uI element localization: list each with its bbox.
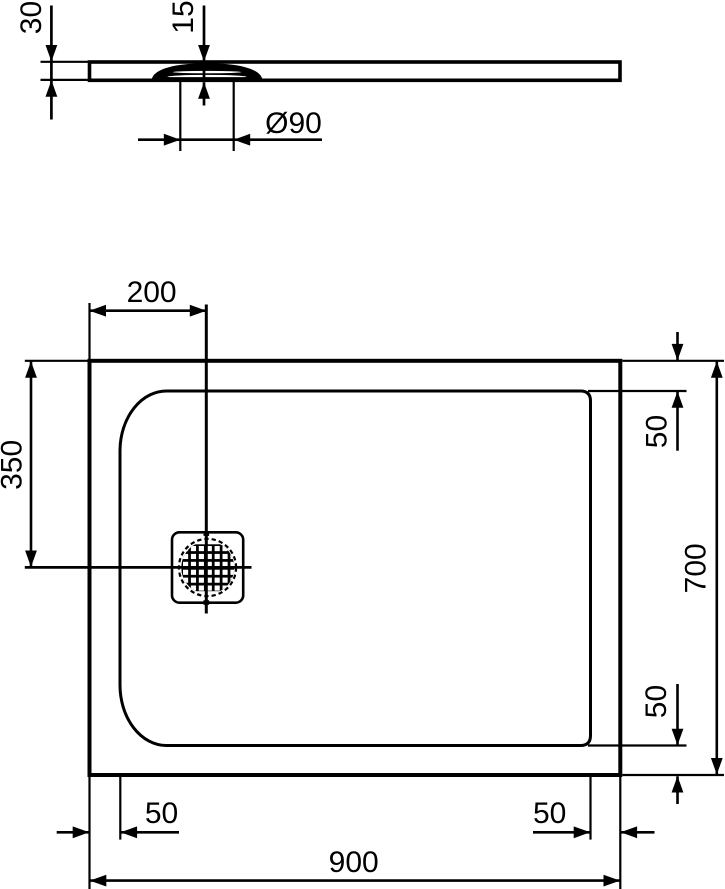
dimension 50 bottom right corner: value label	[533, 797, 566, 830]
drain: horizontal centerline	[25, 566, 252, 569]
dimension D90: extension lines	[180, 82, 233, 151]
section view: drain cap underline	[167, 77, 247, 79]
svg-text:30: 30	[15, 1, 48, 34]
section view: drain cap under-gap	[168, 75, 247, 79]
svg-text:50: 50	[640, 685, 673, 718]
dimension 30: value label	[15, 1, 48, 34]
dimension 30: extension lines	[41, 62, 90, 80]
dimension 50 top right: arrows	[672, 332, 684, 451]
dimension 30: dimension line with arrows	[46, 6, 58, 120]
svg-text:350: 350	[0, 440, 29, 490]
drain: dashed waste circle	[179, 539, 236, 596]
dimension 50 top right: extension lines	[588, 361, 724, 391]
dimension 700: dimension line with arrows	[711, 361, 723, 774]
dimension 900: value label	[329, 846, 379, 879]
dimension 50 bottom right: extension line	[588, 744, 687, 746]
dimension D90: dimension line with arrows	[138, 134, 322, 146]
svg-text:15: 15	[167, 0, 200, 33]
dimension 900: extension line right	[619, 777, 621, 889]
dimension 50 bottom right corner: extension line	[589, 777, 591, 840]
dimension D90: value label	[265, 107, 322, 140]
dimension 50 bottom left: dimension line with arrows	[57, 826, 179, 838]
dimension 50 top right: value label	[641, 415, 674, 448]
section view: drain cap lens sliver	[173, 71, 241, 73]
dimension 350: dimension line with arrows	[25, 361, 37, 567]
dimension 50 bottom right: arrows	[672, 684, 684, 804]
plan view: tray outer rectangle	[90, 361, 621, 775]
dimension 50 bottom left: extension lines	[90, 777, 121, 889]
drain: vertical centerline	[204, 305, 210, 614]
svg-text:700: 700	[680, 543, 713, 593]
plan view: tray inner rounded floor outline	[120, 391, 591, 746]
svg-text:50: 50	[145, 797, 178, 830]
dimension 50 bottom right: value label	[640, 685, 673, 718]
dimension 200: value label	[127, 276, 177, 309]
svg-text:900: 900	[329, 846, 379, 879]
drain: rounded square waste cover	[172, 532, 243, 602]
svg-text:Ø90: Ø90	[265, 107, 322, 140]
dimension 200: extension line	[88, 303, 90, 359]
dimension 50 bottom right corner: dimension line with arrows	[533, 826, 655, 838]
dimension 200: dimension line with arrows	[90, 305, 207, 317]
dimension 350: value label	[0, 440, 29, 490]
section view: tray profile bar	[90, 62, 621, 80]
svg-text:50: 50	[533, 797, 566, 830]
dimension 350: top extension line	[25, 360, 89, 362]
svg-text:200: 200	[127, 276, 177, 309]
section view: drain recess dome	[153, 64, 262, 80]
dimension 50 bottom left: value label	[145, 797, 178, 830]
dimension 900: dimension line with arrows	[90, 875, 621, 887]
dimension 15: value label	[167, 0, 200, 33]
drain: grate grid	[181, 544, 235, 591]
dimension 15: dimension line with arrows	[198, 6, 210, 106]
dimension 700: bottom extension line	[622, 774, 724, 776]
dimension 700: value label	[680, 543, 713, 593]
svg-text:50: 50	[641, 415, 674, 448]
